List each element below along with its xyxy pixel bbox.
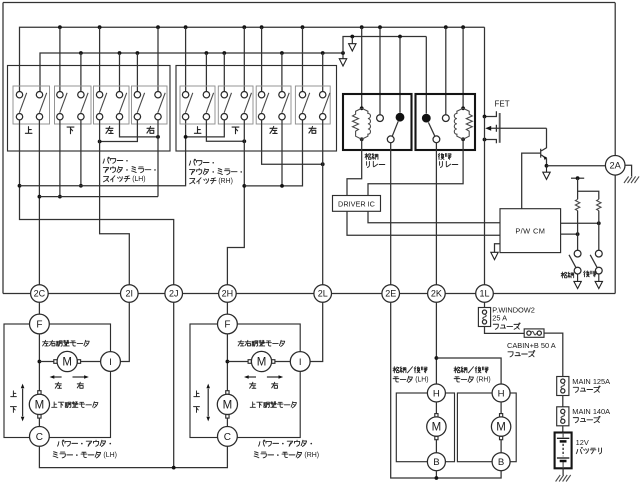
svg-text:DRIVER IC: DRIVER IC	[338, 199, 375, 208]
node FET source junction	[483, 138, 487, 142]
relay U2 NO terminal	[442, 115, 449, 122]
connector 2C	[31, 285, 49, 303]
power outer mirror switch RH box	[176, 66, 337, 152]
svg-text:12V: 12V	[576, 438, 589, 447]
ground chassis at battery	[556, 475, 571, 482]
svg-text:(RH): (RH)	[476, 377, 490, 384]
label left RH	[270, 126, 277, 133]
node junction relay feed / relay1 NC contact	[398, 35, 402, 39]
label power outer mirror motor LH line2	[53, 452, 58, 458]
label return switch	[584, 271, 590, 277]
svg-text:2I: 2I	[126, 289, 134, 299]
power outer mirror switch LH box	[8, 66, 171, 152]
terminal I LH	[101, 352, 121, 372]
svg-text:2J: 2J	[169, 289, 179, 299]
svg-text:M: M	[496, 422, 506, 434]
wire bus1 drop x=99.6	[99, 27, 101, 92]
wire junction to M1 RH	[227, 361, 248, 363]
switch contact right-R LH	[155, 92, 165, 120]
terminal C RH	[218, 427, 238, 447]
wire 2J to mirror common C bus	[173, 302, 175, 467]
control module P/W CM box	[500, 209, 561, 253]
wire M2 to C LH	[38, 418, 40, 427]
switch contact left-L LH	[96, 92, 106, 120]
label power outer mirror switch RH	[189, 159, 195, 165]
wire F4 to battery	[562, 426, 564, 433]
node junction motor branch LH	[38, 360, 42, 364]
off-page arrow below relay feed wire	[349, 37, 356, 52]
node junction sense 2 / pull-up R1	[576, 232, 580, 236]
svg-text:(RH): (RH)	[218, 178, 232, 185]
switch contact down-R LH	[78, 92, 88, 120]
node junction bus1/relay2 coil	[461, 25, 465, 29]
arrow up-down LH	[22, 389, 24, 417]
terminal F LH	[30, 314, 50, 334]
relay U2 return relay box	[416, 94, 476, 150]
wire right-R LH drop to second common	[157, 120, 159, 197]
wire up-R to down-R cross RH	[206, 120, 244, 141]
wire connector row line	[3, 293, 615, 295]
wire relay1 NO contact drop	[379, 27, 381, 114]
switch section box down RH	[218, 86, 253, 124]
svg-text:B: B	[498, 457, 504, 468]
switch contact down-R RH	[241, 92, 251, 120]
switch section box down LH	[55, 86, 92, 124]
label right LH	[147, 126, 154, 133]
wire 2K to retract motor H bus	[435, 302, 437, 384]
wire relay2 NC contact drop	[425, 37, 427, 114]
wire 2E to retract motor B bus	[391, 302, 501, 478]
wire relay U1 output to 2E	[390, 143, 392, 285]
switch section box left RH	[256, 86, 291, 124]
node junction bus2/right-R RH	[321, 51, 325, 55]
wire M1 to I LH	[81, 361, 101, 363]
switch section box right LH	[132, 86, 168, 124]
node junction right-R riser / left-L RH	[321, 162, 325, 166]
wire bus1 drop x=185.6	[185, 27, 187, 92]
svg-text:FET: FET	[495, 100, 510, 109]
label retract relay	[365, 153, 371, 159]
switch contact up-R LH	[36, 92, 46, 120]
terminal B RH retract	[492, 453, 510, 471]
connector 2H	[219, 285, 237, 303]
svg-text:I: I	[109, 357, 112, 368]
wire driver IC output 1 to P/W CM	[368, 211, 500, 223]
switch section box left LH	[94, 86, 130, 124]
wire junction to M1 LH	[39, 361, 53, 363]
wire motor to B RH retract	[500, 440, 502, 453]
wire H to motor LH retract	[435, 402, 437, 414]
switch return manual	[590, 250, 602, 274]
battery BT1 12V	[555, 433, 572, 469]
wire FET drain riser from bus1	[484, 27, 486, 116]
relay U1 movable contact	[387, 121, 398, 142]
wire F to motor junction RH	[226, 334, 228, 391]
switch contact up-L LH	[16, 92, 26, 120]
label up LH arrow	[11, 391, 17, 397]
wire C bus LH to RH	[39, 446, 227, 467]
wire up-R LH down to 2C	[38, 120, 40, 285]
connector 2L	[314, 285, 332, 303]
wire right side of loop through 2A	[614, 3, 616, 294]
relay U2 NC terminal (closed)	[422, 114, 431, 123]
svg-text:M: M	[62, 357, 72, 369]
connector 2E	[382, 285, 400, 303]
wire bus2 drop x=80.9	[80, 53, 82, 92]
terminal B LH retract	[427, 453, 445, 471]
wire 2C to mirror motor LH F	[38, 302, 40, 314]
retract motor RH case box	[457, 393, 516, 462]
wire P/W CM ground pin	[495, 244, 501, 253]
wire H to motor RH retract	[500, 402, 502, 414]
svg-text:I: I	[299, 357, 302, 368]
connector 2K	[428, 285, 446, 303]
switch contact right-R RH	[320, 92, 330, 120]
wire FET source to 1L	[484, 117, 486, 285]
node junction up-R / second common wire	[38, 195, 42, 199]
wire M1 to I RH	[275, 361, 291, 363]
node junction H feed split	[435, 356, 439, 360]
wire Q2 emitter to 2A	[547, 165, 606, 167]
fuse F3 MAIN 125A	[557, 377, 569, 396]
terminal H LH retract	[427, 384, 445, 402]
node junction left-R / RH common wire	[280, 184, 284, 188]
label power outer mirror motor LH line1	[58, 440, 64, 446]
label up RH arrow	[194, 391, 200, 397]
motor M retract RH	[491, 414, 510, 440]
wire down-R LH drop	[80, 120, 82, 186]
wire P/W CM sense pin 1	[561, 222, 599, 224]
motor M1 left-right adjust LH	[54, 351, 81, 371]
off-page arrow below bus2 end	[339, 53, 346, 66]
label down LH	[67, 127, 74, 134]
label right LH arrow	[77, 382, 83, 388]
label retract return motor LH line1	[393, 367, 399, 373]
wire R2 to return switch	[598, 211, 600, 251]
node junction bus2/left-R LH	[118, 51, 122, 55]
wire RH common (down-R to right-L)	[244, 120, 302, 186]
off-page arrow below Q2 emitter	[543, 166, 550, 180]
label power outer mirror switch LH	[103, 157, 109, 163]
connector 1L	[476, 285, 494, 303]
switch contact up-R RH	[203, 92, 213, 120]
wire bus2 drop x=206.4	[205, 53, 207, 92]
arrow up-down RH	[207, 389, 209, 417]
node junction bus1/switch-left-L LH	[98, 25, 102, 29]
wire bus1 drop x=59.9	[59, 27, 61, 92]
svg-text:C: C	[36, 432, 43, 443]
wire relay U1 coil to driver IC	[347, 139, 362, 195]
switch contact left-R RH	[279, 92, 289, 120]
node junction left-L LH	[98, 140, 102, 144]
wire second common (up-R/down-L/right-R)	[39, 196, 158, 198]
label retract return motor LH line2	[393, 377, 399, 382]
svg-text:H: H	[498, 388, 505, 399]
wire bus2 drop x=224.3	[223, 53, 225, 92]
driver IC U3 box	[333, 196, 381, 212]
wire left-R to right-R cross LH	[120, 120, 159, 137]
wire relay U2 output to 2K	[435, 143, 437, 285]
label right RH	[309, 126, 316, 133]
wire bus1 drop x=302.5	[302, 27, 304, 92]
svg-text:C: C	[224, 432, 231, 443]
node junction bus2/up-R RH	[205, 51, 209, 55]
svg-text:P/W CM: P/W CM	[515, 227, 545, 236]
fuse F4 MAIN 140A	[557, 407, 569, 426]
wire left-L RH to right-R wire	[262, 120, 323, 164]
arrow left direction LH	[53, 376, 61, 378]
retract motor LH case box	[396, 393, 454, 462]
wire second feed bus	[40, 53, 343, 92]
svg-text:MAIN 140A: MAIN 140A	[572, 407, 610, 416]
svg-text:H: H	[433, 388, 440, 399]
node junction bus1/relay1 contact	[378, 25, 382, 29]
wire bus2 drop x=119.5	[119, 53, 121, 92]
wire right-R RH down to 2L	[322, 120, 324, 285]
label down LH arrow	[10, 407, 16, 413]
svg-text:F: F	[224, 320, 230, 331]
node junction bus1/switch-down-R RH	[242, 25, 246, 29]
resistor R2	[597, 199, 601, 210]
transistor Q2 NPN	[541, 128, 547, 166]
wire B LH to B bus	[435, 471, 437, 478]
mirror motor RH case box	[190, 324, 300, 438]
switch section box up RH	[180, 86, 215, 124]
node junction up-L / mirror common wire	[18, 184, 22, 188]
resistor R1	[575, 199, 579, 210]
wire F2 to F3	[544, 333, 563, 376]
wire driver IC output 2 to P/W CM	[347, 211, 500, 235]
wire 2L to mirror motor RH I	[310, 302, 322, 361]
switch contact down-L LH	[57, 92, 67, 120]
svg-text:M: M	[223, 399, 233, 411]
wire R1 to retract switch	[577, 211, 579, 251]
switch retract manual	[569, 250, 581, 274]
switch section box up LH	[13, 86, 50, 124]
label power outer mirror motor RH line1	[259, 440, 265, 446]
node Q2 emitter junction	[545, 164, 549, 168]
wire M2 to C RH	[226, 418, 228, 427]
node junction bus2/down-L RH	[222, 51, 226, 55]
wire motor to B LH retract	[435, 440, 437, 453]
wire H feed to RH retract motor	[436, 358, 501, 384]
wire bus1 drop x=244.3	[243, 27, 245, 92]
relay U1 coil	[353, 106, 371, 141]
switch section box right RH	[295, 86, 330, 124]
wire F3 to F4	[562, 396, 564, 407]
node junction bus2 end to relay feed	[341, 51, 345, 55]
wire power tap to resistor pair	[578, 178, 599, 199]
label left LH	[106, 126, 113, 133]
wire relay1 coil feed	[361, 27, 363, 108]
node FET drain junction	[483, 115, 487, 119]
motor M1 left-right adjust RH	[248, 351, 275, 371]
svg-text:M: M	[257, 357, 267, 369]
wire top bus of ground loop	[3, 2, 615, 4]
mirror motor LH case box	[4, 324, 111, 438]
arrow left direction RH	[248, 376, 256, 378]
node junction bus2/right-L LH	[136, 51, 140, 55]
label retract return motor RH line2	[454, 377, 460, 382]
label power outer mirror motor RH line2	[254, 452, 259, 458]
svg-text:2L: 2L	[318, 289, 328, 299]
wire relay1 NC contact drop	[399, 37, 401, 113]
relay U2 movable contact	[428, 122, 439, 142]
wire relay U2 coil to driver IC	[368, 139, 463, 195]
switch contact left-R LH	[116, 92, 126, 120]
svg-text:CABIN+B 50 A: CABIN+B 50 A	[507, 341, 556, 350]
terminal I RH	[290, 352, 310, 372]
label up-down adjust motor LH	[52, 402, 57, 407]
wire main feed bus from FET drain	[20, 27, 485, 92]
label up LH	[25, 127, 32, 134]
wire P/W CM sense pin 2	[561, 233, 578, 235]
svg-text:(LH): (LH)	[103, 452, 117, 459]
connector 2A	[605, 156, 625, 176]
wire right-L to left-L cross LH	[100, 120, 138, 142]
label down RH	[232, 127, 239, 134]
wire 1L to fuse F1	[484, 302, 486, 307]
connector 2J	[165, 285, 183, 303]
wire 2A to chassis ground	[625, 165, 632, 176]
node junction bus2/down-R LH	[79, 51, 83, 55]
wire relay2 NO contact drop	[445, 27, 447, 114]
transistor FET Q1	[485, 111, 547, 143]
fuse F1 P.WINDOW2 25A	[478, 308, 490, 327]
node junction motor branch RH	[226, 360, 230, 364]
terminal F RH	[218, 314, 238, 334]
svg-text:1L: 1L	[479, 289, 489, 299]
wire battery to ground	[562, 468, 564, 475]
node junction down-R RH	[242, 139, 246, 143]
arrow right direction LH	[73, 376, 86, 378]
svg-text:2K: 2K	[431, 289, 442, 299]
relay U1 NC terminal (closed)	[396, 113, 405, 122]
svg-text:M: M	[35, 399, 45, 411]
ground chassis at 2A	[624, 176, 639, 183]
connector 2I	[121, 285, 139, 303]
off-page arrow below P/W CM ground pin	[491, 252, 498, 259]
node power tap bar	[571, 176, 584, 180]
wire bus2 drop x=322.7	[322, 53, 324, 92]
node junction up-L RH	[184, 135, 188, 139]
switch contact left-L RH	[258, 92, 268, 120]
off-page arrow below return switch	[595, 274, 602, 289]
svg-text:2A: 2A	[610, 161, 622, 171]
node junction down-L / second common wire	[58, 195, 62, 199]
wire bus1 drop x=261.6	[261, 27, 263, 92]
wire left side of loop to connector 2C	[2, 3, 4, 294]
fuse F2 CABIN+B 50A	[524, 329, 544, 337]
svg-text:2E: 2E	[385, 289, 396, 299]
wire bus2 drop x=281.9	[281, 53, 283, 92]
node junction sense 1 / pull-up R2	[597, 221, 601, 225]
svg-text:F: F	[36, 320, 42, 331]
label left-right adjust motor RH	[238, 340, 244, 346]
node junction right-R LH	[156, 135, 160, 139]
wire relay2 coil feed	[462, 27, 464, 108]
node junction B bus	[435, 476, 439, 480]
node junction bus1/relay2 contact	[444, 25, 448, 29]
switch contact right-L RH	[299, 92, 309, 120]
node junction bus1/relay1 coil	[360, 25, 364, 29]
label left LH arrow	[55, 382, 61, 388]
terminal H RH retract	[492, 384, 510, 402]
svg-text:(LH): (LH)	[415, 377, 428, 384]
relay U1 NO terminal	[377, 115, 384, 122]
wire left-R RH drop	[281, 120, 283, 186]
switch contact up-L RH	[182, 92, 192, 120]
wire down-L LH drop	[59, 120, 61, 197]
svg-text:B: B	[433, 457, 439, 468]
node junction bus1/switch-left-L RH	[260, 25, 264, 29]
wire F1 to F2	[485, 327, 525, 334]
relay U1 retract relay box	[343, 94, 412, 150]
wire down-R RH to 2H with jog	[227, 120, 244, 285]
wire down-L to up-L cross RH	[186, 120, 225, 137]
svg-text:(RH): (RH)	[304, 452, 319, 459]
label up RH	[194, 127, 201, 134]
node junction bus1/switch-right-L RH	[301, 25, 305, 29]
node junction bus2/left-R RH	[280, 51, 284, 55]
motor M2 up-down adjust RH	[217, 391, 237, 418]
svg-text:25 A: 25 A	[492, 314, 507, 323]
label left RH arrow	[250, 382, 256, 388]
wire Q2 base from P/W CM	[522, 153, 541, 209]
node junction bus1/switch-down-L LH	[58, 25, 62, 29]
wire bus2 drop x=137.4	[136, 53, 138, 92]
svg-text:2H: 2H	[222, 289, 234, 299]
node junction C bus / 2J	[172, 466, 176, 470]
wire left-L LH to 2I with jog	[100, 120, 130, 285]
node junction down-R / mirror common wire	[79, 184, 83, 188]
label left-right adjust motor LH	[43, 340, 49, 346]
relay U2 coil	[454, 106, 472, 141]
motor M retract LH	[427, 414, 446, 440]
motor M2 up-down adjust LH	[29, 391, 49, 418]
label return relay	[438, 153, 444, 159]
wire 2H to mirror motor RH F	[226, 302, 228, 314]
label down RH arrow	[194, 407, 200, 413]
switch contact down-L RH	[221, 92, 231, 120]
svg-text:MAIN 125A: MAIN 125A	[572, 377, 610, 386]
label up-down adjust motor RH	[250, 402, 255, 407]
node junction down-R / RH common wire	[242, 184, 246, 188]
label retract switch	[561, 272, 567, 278]
switch contact right-L LH	[134, 92, 144, 120]
arrow right direction RH	[267, 376, 280, 378]
wire up-L LH to 2J run	[20, 120, 174, 285]
svg-text:(LH): (LH)	[132, 176, 145, 183]
wire 2I to mirror motor LH I	[121, 302, 130, 361]
node junction bus1/switch-up-L RH	[184, 25, 188, 29]
node junction relay feed / off-page arrow	[350, 35, 354, 39]
terminal C LH	[30, 427, 50, 447]
wire bus2 riser to relay feed wire	[343, 37, 426, 54]
svg-text:2C: 2C	[34, 289, 46, 299]
wire bus1 drop x=158	[157, 27, 159, 92]
wire F to motor junction LH	[38, 334, 40, 391]
wire mirror common (up-L/down-R to RH up-L)	[20, 120, 186, 186]
label right RH arrow	[272, 382, 278, 388]
svg-text:M: M	[432, 422, 442, 434]
node junction bus1/switch-right-R LH	[156, 25, 160, 29]
label retract return motor RH line1	[454, 367, 460, 373]
off-page arrow below retract switch	[574, 274, 581, 289]
